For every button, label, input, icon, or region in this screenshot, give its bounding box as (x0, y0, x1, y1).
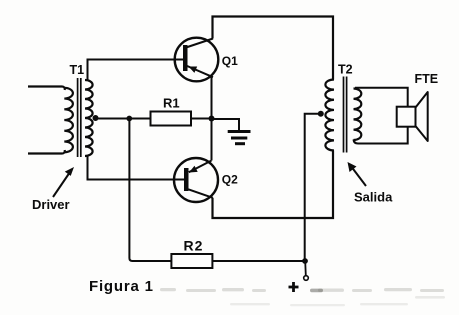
svg-text:T2: T2 (338, 63, 353, 77)
transformer T1 primary top lead (28, 87, 65, 91)
wire stub to + terminal (304, 261, 307, 276)
svg-text:Q2: Q2 (222, 172, 238, 186)
arrow Driver (53, 167, 74, 197)
transformer T2 core (343, 77, 345, 153)
transformer T1 secondary winding (85, 80, 93, 156)
svg-text:Salida: Salida (354, 190, 393, 205)
speaker FTE (397, 92, 428, 141)
ground (212, 119, 251, 144)
node R1 left junction (126, 116, 132, 122)
resistor R2 (171, 254, 212, 268)
arrow Salida (348, 162, 367, 186)
transistor Q1 (175, 38, 219, 82)
svg-text:Driver: Driver (32, 197, 70, 212)
terminal + (304, 276, 309, 281)
wire emitter rail (211, 77, 213, 161)
wire base Q1 from T1 secondary top (88, 60, 184, 81)
svg-text:R1: R1 (163, 95, 180, 110)
wire speaker bottom lead (354, 127, 408, 144)
svg-text:T1: T1 (70, 63, 85, 77)
wire base Q2 from T1 secondary bottom (88, 155, 185, 180)
transformer T1 primary bottom lead (28, 150, 65, 154)
wire R1 right (191, 118, 212, 120)
wire speaker top lead (355, 88, 408, 107)
node T2 center tap (318, 111, 324, 117)
transformer T1 core (77, 78, 79, 157)
transformer T2 secondary winding (354, 89, 362, 141)
transformer T1 primary winding (64, 88, 73, 152)
wire collector rail top (213, 17, 334, 80)
wire center tap to R1 (96, 118, 151, 120)
node T1 center tap (93, 115, 99, 121)
transformer T2 primary winding (325, 80, 334, 151)
node emitter junction (209, 116, 215, 122)
svg-text:Figura 1: Figura 1 (89, 278, 154, 295)
node R2 right junction (302, 258, 308, 264)
resistor R1 (151, 112, 192, 126)
wire R2 right (212, 260, 305, 262)
wire Q2 collector to bottom rail (213, 151, 334, 219)
transistor Q2 (174, 158, 218, 202)
wire T2 tap down to R2 junction (305, 114, 321, 261)
wire R2 left vertical (129, 119, 171, 262)
svg-text:R2: R2 (184, 237, 204, 253)
label + (289, 282, 299, 292)
svg-text:Q1: Q1 (222, 54, 238, 68)
svg-text:FTE: FTE (415, 72, 439, 86)
